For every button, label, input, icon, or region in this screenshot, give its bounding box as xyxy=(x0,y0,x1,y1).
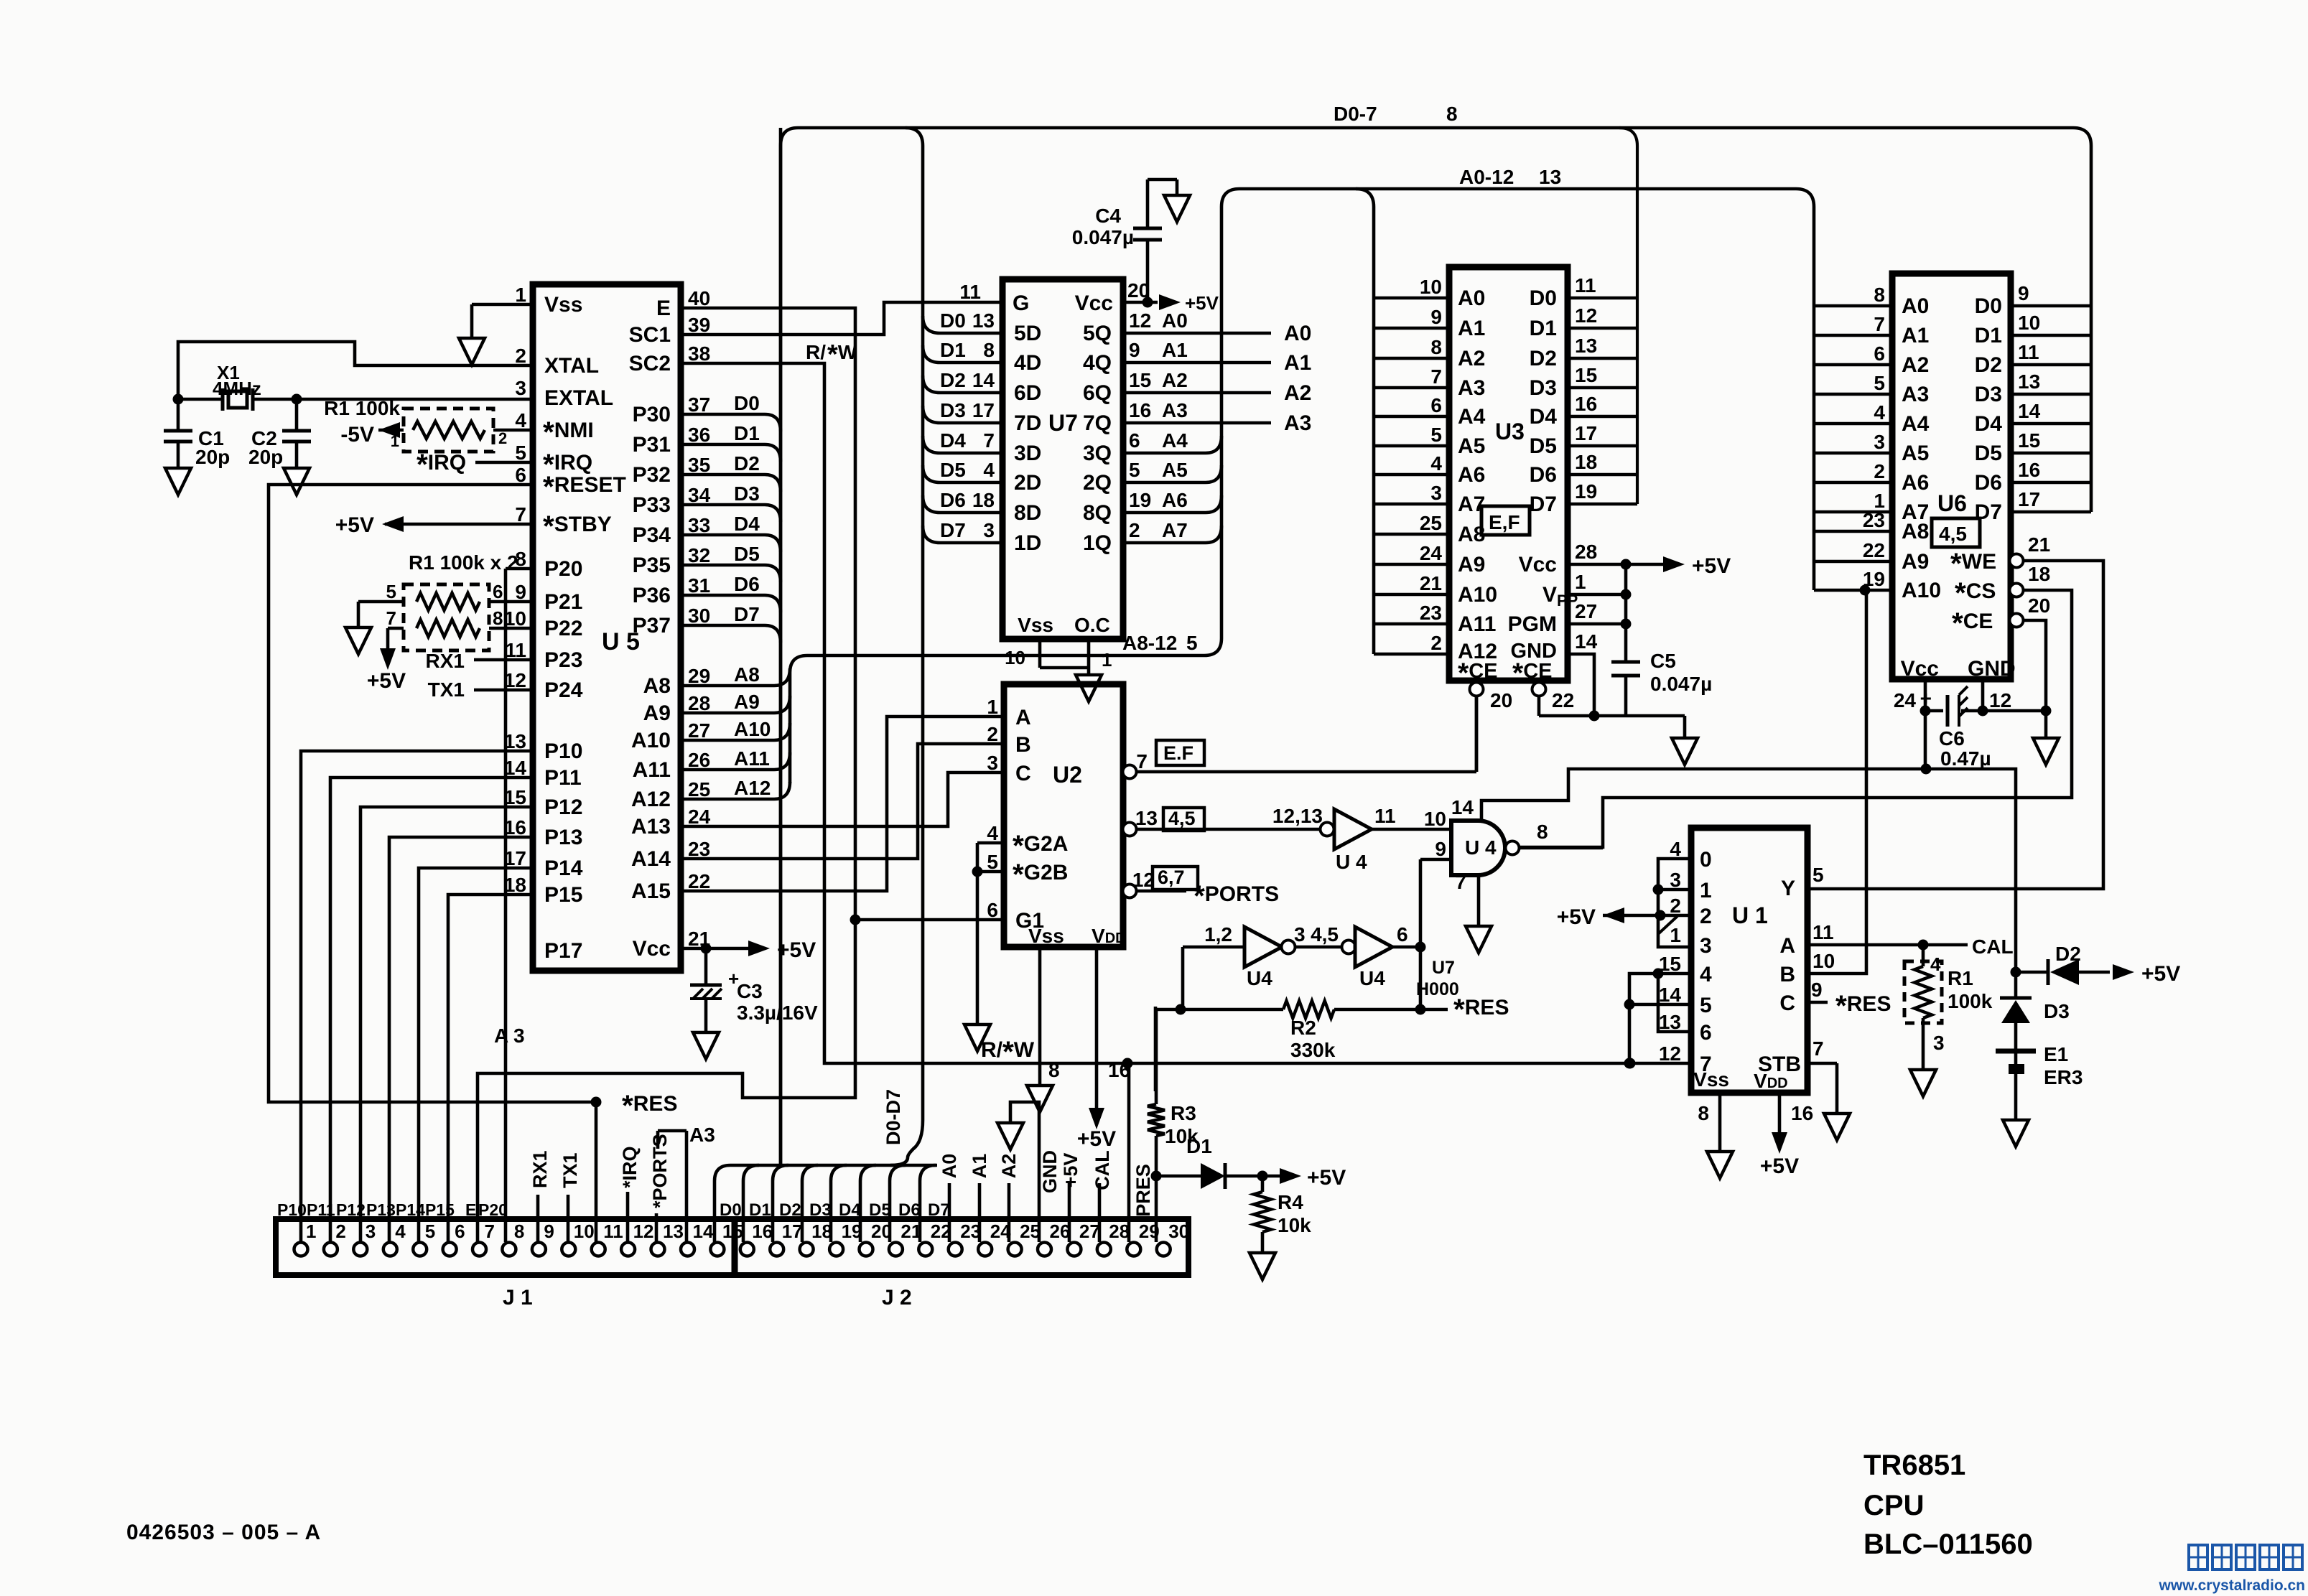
svg-text:E1: E1 xyxy=(2044,1043,2068,1065)
svg-text:5: 5 xyxy=(1700,994,1712,1017)
svg-text:24: 24 xyxy=(1420,542,1443,564)
svg-text:5: 5 xyxy=(515,442,526,464)
svg-text:C: C xyxy=(1015,762,1031,785)
svg-text:P10: P10 xyxy=(277,1200,307,1219)
svg-text:6: 6 xyxy=(1129,429,1140,452)
svg-text:P37: P37 xyxy=(633,614,671,638)
svg-text:16: 16 xyxy=(1108,1059,1130,1081)
svg-text:12: 12 xyxy=(1989,689,2011,711)
svg-text:R2: R2 xyxy=(1290,1017,1316,1039)
svg-text:13: 13 xyxy=(504,730,526,752)
svg-text:13: 13 xyxy=(1659,1011,1681,1033)
svg-text:7Q: 7Q xyxy=(1083,411,1112,435)
svg-text:3.3µ/16V: 3.3µ/16V xyxy=(737,1002,818,1024)
svg-text:13: 13 xyxy=(1135,807,1158,829)
svg-text:8: 8 xyxy=(514,1221,524,1242)
svg-text:12,13: 12,13 xyxy=(1272,805,1323,827)
svg-text:9: 9 xyxy=(1811,979,1823,1001)
svg-text:16: 16 xyxy=(1791,1102,1813,1124)
svg-text:U 1: U 1 xyxy=(1732,902,1768,928)
svg-text:A3: A3 xyxy=(689,1124,715,1146)
svg-text:0.047µ: 0.047µ xyxy=(1650,673,1712,695)
svg-text:2: 2 xyxy=(1129,519,1140,541)
svg-text:16: 16 xyxy=(504,816,526,839)
svg-text:18: 18 xyxy=(2028,563,2050,585)
svg-text:A1: A1 xyxy=(1902,324,1929,347)
svg-text:P11: P11 xyxy=(544,766,582,790)
svg-text:6,7: 6,7 xyxy=(1158,867,1185,888)
svg-text:27: 27 xyxy=(1079,1221,1100,1242)
svg-text:7: 7 xyxy=(1430,365,1442,388)
svg-text:BLC–011560: BLC–011560 xyxy=(1863,1529,2033,1560)
svg-text:7: 7 xyxy=(1813,1037,1824,1060)
svg-text:7: 7 xyxy=(1455,871,1466,893)
svg-text:1: 1 xyxy=(1700,879,1712,902)
svg-text:6: 6 xyxy=(515,464,526,486)
svg-text:21: 21 xyxy=(2028,533,2050,556)
svg-text:P10: P10 xyxy=(544,739,582,763)
svg-text:3: 3 xyxy=(1430,482,1442,504)
svg-text:A: A xyxy=(1015,706,1031,729)
svg-text:33: 33 xyxy=(688,514,710,536)
svg-text:38: 38 xyxy=(688,342,710,365)
svg-text:CPU: CPU xyxy=(1863,1490,1924,1521)
svg-text:A1: A1 xyxy=(1284,351,1311,375)
svg-text:7: 7 xyxy=(1874,313,1885,335)
svg-text:16: 16 xyxy=(1575,393,1597,415)
svg-text:Vss: Vss xyxy=(544,293,582,317)
svg-text:A: A xyxy=(1779,934,1795,958)
svg-text:18: 18 xyxy=(504,874,526,896)
svg-text:6: 6 xyxy=(1430,394,1442,416)
svg-text:P11: P11 xyxy=(307,1200,335,1219)
svg-text:13: 13 xyxy=(1575,335,1597,357)
svg-text:5: 5 xyxy=(1813,864,1824,886)
svg-text:3D: 3D xyxy=(1014,442,1041,465)
svg-text:1: 1 xyxy=(987,696,998,718)
svg-text:13: 13 xyxy=(2018,370,2040,393)
svg-text:A1: A1 xyxy=(1162,339,1188,361)
svg-text:B: B xyxy=(1779,963,1795,986)
svg-text:*PORTS: *PORTS xyxy=(649,1134,671,1208)
svg-text:9: 9 xyxy=(1430,306,1442,328)
svg-text:22: 22 xyxy=(688,870,710,892)
svg-text:9: 9 xyxy=(2018,282,2029,304)
svg-text:P32: P32 xyxy=(633,463,671,487)
svg-text:8D: 8D xyxy=(1014,501,1041,525)
svg-text:A2: A2 xyxy=(1162,369,1188,391)
svg-text:8: 8 xyxy=(1430,336,1442,358)
svg-text:7: 7 xyxy=(1136,750,1148,773)
svg-text:A9: A9 xyxy=(1458,553,1485,577)
svg-text:A3: A3 xyxy=(1162,399,1188,421)
svg-text:25: 25 xyxy=(688,778,710,801)
svg-text:29: 29 xyxy=(1139,1221,1160,1242)
svg-text:3: 3 xyxy=(1874,431,1885,453)
svg-text:P15: P15 xyxy=(544,883,582,907)
svg-text:22: 22 xyxy=(1552,689,1574,711)
svg-text:A8: A8 xyxy=(734,663,760,686)
svg-text:+5V: +5V xyxy=(367,669,406,693)
svg-text:A7: A7 xyxy=(1162,519,1188,541)
svg-text:A0: A0 xyxy=(939,1154,960,1179)
svg-text:+5V: +5V xyxy=(1760,1154,1799,1178)
svg-text:4: 4 xyxy=(1874,401,1885,424)
svg-text:14: 14 xyxy=(1659,984,1682,1006)
svg-text:25: 25 xyxy=(1420,512,1442,534)
svg-text:11: 11 xyxy=(959,281,981,303)
svg-text:A13: A13 xyxy=(631,815,671,839)
svg-text:A1: A1 xyxy=(969,1154,990,1179)
svg-text:1: 1 xyxy=(391,432,399,450)
svg-text:TX1: TX1 xyxy=(428,678,465,701)
svg-text:7: 7 xyxy=(485,1221,495,1242)
svg-text:Vcc: Vcc xyxy=(1075,291,1113,315)
svg-text:2: 2 xyxy=(1700,905,1712,928)
svg-text:Vcc: Vcc xyxy=(1519,553,1557,577)
svg-text:5: 5 xyxy=(425,1221,435,1242)
svg-text:A4: A4 xyxy=(1902,412,1930,436)
svg-text:11: 11 xyxy=(1575,274,1596,297)
svg-text:H000: H000 xyxy=(1416,979,1459,999)
svg-text:D7: D7 xyxy=(734,603,760,625)
svg-text:12: 12 xyxy=(633,1221,654,1242)
svg-text:+5V: +5V xyxy=(2141,962,2180,986)
svg-text:P14: P14 xyxy=(396,1200,425,1219)
svg-text:7: 7 xyxy=(983,429,995,452)
svg-text:17: 17 xyxy=(1575,422,1597,444)
svg-text:23: 23 xyxy=(1420,602,1442,624)
svg-text:5: 5 xyxy=(1186,632,1198,654)
svg-text:A0: A0 xyxy=(1902,294,1929,318)
svg-text:D2: D2 xyxy=(2055,943,2081,965)
svg-text:20p: 20p xyxy=(248,446,283,468)
svg-text:D3: D3 xyxy=(1530,376,1557,400)
svg-text:U7: U7 xyxy=(1432,958,1455,978)
svg-text:10: 10 xyxy=(1005,647,1025,668)
svg-text:2: 2 xyxy=(1430,632,1442,654)
svg-text:4,5: 4,5 xyxy=(1311,923,1339,946)
svg-text:6: 6 xyxy=(455,1221,465,1242)
svg-text:1Q: 1Q xyxy=(1083,531,1112,555)
svg-text:100k: 100k xyxy=(1948,990,1993,1012)
svg-text:Y: Y xyxy=(1781,877,1795,900)
svg-text:1: 1 xyxy=(515,284,526,306)
svg-text:36: 36 xyxy=(688,424,710,446)
svg-text:30: 30 xyxy=(1168,1221,1189,1242)
svg-text:6: 6 xyxy=(1397,923,1408,946)
svg-text:18: 18 xyxy=(811,1221,832,1242)
svg-text:A3: A3 xyxy=(1902,383,1929,406)
svg-text:+5V: +5V xyxy=(1060,1153,1081,1188)
svg-text:27: 27 xyxy=(688,719,710,742)
svg-text:D0: D0 xyxy=(734,392,760,414)
svg-text:J 1: J 1 xyxy=(503,1286,533,1310)
svg-text:C: C xyxy=(1779,991,1795,1015)
svg-text:Vss: Vss xyxy=(1018,614,1053,636)
svg-text:15: 15 xyxy=(1575,364,1597,386)
svg-text:24: 24 xyxy=(1894,689,1917,711)
svg-text:P23: P23 xyxy=(544,648,582,672)
svg-text:1,2: 1,2 xyxy=(1204,923,1232,946)
svg-text:-5V: -5V xyxy=(340,423,374,447)
svg-text:28: 28 xyxy=(688,692,710,714)
svg-text:4: 4 xyxy=(987,822,998,844)
svg-text:ER3: ER3 xyxy=(2044,1066,2083,1088)
svg-text:17: 17 xyxy=(504,847,526,869)
svg-text:14: 14 xyxy=(504,757,527,779)
svg-text:A11: A11 xyxy=(734,747,770,770)
svg-text:D7: D7 xyxy=(928,1200,950,1220)
svg-text:TR6851: TR6851 xyxy=(1863,1450,1965,1481)
svg-text:23: 23 xyxy=(688,838,710,860)
svg-text:4MHz: 4MHz xyxy=(213,378,261,399)
svg-text:E: E xyxy=(465,1200,476,1219)
svg-text:4,5: 4,5 xyxy=(1939,523,1967,545)
svg-text:Vss: Vss xyxy=(1693,1068,1729,1091)
svg-text:A0: A0 xyxy=(1162,309,1188,332)
svg-text:C3: C3 xyxy=(737,980,763,1002)
svg-text:4: 4 xyxy=(1430,452,1442,475)
svg-text:D5: D5 xyxy=(1530,434,1557,458)
svg-text:P20: P20 xyxy=(544,557,582,581)
svg-text:5: 5 xyxy=(386,581,396,602)
svg-text:17: 17 xyxy=(2018,488,2040,510)
svg-text:A0: A0 xyxy=(1458,286,1485,310)
svg-text:3: 3 xyxy=(1700,934,1712,958)
svg-text:12: 12 xyxy=(504,669,526,691)
svg-text:EXTAL: EXTAL xyxy=(544,386,613,410)
svg-text:18: 18 xyxy=(972,489,995,511)
svg-text:6: 6 xyxy=(1700,1021,1712,1045)
svg-text:D5: D5 xyxy=(869,1200,891,1220)
svg-text:0.047µ: 0.047µ xyxy=(1072,226,1134,248)
svg-text:E,F: E,F xyxy=(1489,511,1520,533)
svg-text:D6: D6 xyxy=(1975,471,2002,495)
svg-text:5Q: 5Q xyxy=(1083,322,1112,345)
svg-text:1: 1 xyxy=(1670,924,1681,946)
svg-text:17: 17 xyxy=(782,1221,803,1242)
svg-text:16: 16 xyxy=(1129,399,1151,421)
svg-text:P14: P14 xyxy=(544,857,583,880)
svg-text:23: 23 xyxy=(1863,509,1885,531)
svg-text:A3: A3 xyxy=(1458,376,1485,400)
svg-text:2: 2 xyxy=(1874,460,1885,482)
svg-text:34: 34 xyxy=(688,484,711,506)
svg-text:25: 25 xyxy=(1020,1221,1041,1242)
svg-text:40: 40 xyxy=(688,287,710,309)
svg-text:2D: 2D xyxy=(1014,471,1041,495)
svg-text:3: 3 xyxy=(1670,869,1681,891)
svg-text:D3: D3 xyxy=(940,399,966,421)
svg-text:P34: P34 xyxy=(633,523,671,547)
svg-text:P24: P24 xyxy=(544,678,583,702)
svg-text:+5V: +5V xyxy=(335,513,374,537)
svg-text:26: 26 xyxy=(1050,1221,1071,1242)
svg-text:12: 12 xyxy=(1575,304,1597,327)
svg-text:A8-12: A8-12 xyxy=(1122,632,1177,654)
svg-text:+5V: +5V xyxy=(1557,905,1596,929)
svg-text:D6: D6 xyxy=(940,489,966,511)
svg-text:+5V: +5V xyxy=(1307,1166,1346,1190)
svg-text:0: 0 xyxy=(1700,848,1712,872)
svg-text:D6: D6 xyxy=(898,1200,921,1220)
svg-text:D6: D6 xyxy=(734,573,760,595)
svg-text:5: 5 xyxy=(1129,459,1140,481)
svg-text:330k: 330k xyxy=(1290,1039,1336,1061)
svg-text:U 4: U 4 xyxy=(1465,836,1497,859)
svg-text:16: 16 xyxy=(2018,459,2040,481)
svg-text:Vcc: Vcc xyxy=(633,937,671,961)
svg-text:D7: D7 xyxy=(1530,493,1557,516)
svg-text:+5V: +5V xyxy=(1692,554,1731,578)
svg-text:11: 11 xyxy=(1374,805,1396,827)
svg-text:4: 4 xyxy=(1670,838,1681,860)
svg-text:3: 3 xyxy=(1294,923,1306,946)
svg-text:0426503 – 005 – A: 0426503 – 005 – A xyxy=(126,1521,321,1544)
svg-text:16: 16 xyxy=(752,1221,773,1242)
svg-text:D7: D7 xyxy=(940,519,966,541)
svg-text:O.C: O.C xyxy=(1074,614,1110,636)
svg-text:11: 11 xyxy=(2018,341,2039,363)
svg-text:D2: D2 xyxy=(1530,347,1557,370)
svg-text:E.F: E.F xyxy=(1163,742,1193,764)
svg-text:R1 100k x 2: R1 100k x 2 xyxy=(409,551,518,574)
svg-text:P13: P13 xyxy=(544,826,582,849)
svg-text:9: 9 xyxy=(1129,339,1140,361)
svg-text:C6: C6 xyxy=(1939,727,1965,750)
svg-text:U2: U2 xyxy=(1053,762,1082,788)
svg-text:8: 8 xyxy=(493,607,503,629)
svg-text:5: 5 xyxy=(1430,424,1442,446)
svg-text:6: 6 xyxy=(987,899,998,921)
svg-text:D1: D1 xyxy=(940,339,966,361)
svg-text:29: 29 xyxy=(688,665,710,687)
svg-text:P36: P36 xyxy=(633,584,671,607)
svg-text:10k: 10k xyxy=(1278,1214,1311,1236)
svg-text:1: 1 xyxy=(1575,571,1586,593)
svg-text:A11: A11 xyxy=(633,758,671,782)
svg-text:D0-D7: D0-D7 xyxy=(883,1089,904,1145)
svg-text:A6: A6 xyxy=(1458,463,1485,487)
svg-text:9: 9 xyxy=(1435,838,1446,860)
svg-text:www.crystalradio.cn: www.crystalradio.cn xyxy=(2159,1577,2305,1594)
svg-text:1D: 1D xyxy=(1014,531,1041,555)
svg-text:9: 9 xyxy=(515,581,526,603)
svg-text:C5: C5 xyxy=(1650,650,1676,672)
svg-text:PRES: PRES xyxy=(1132,1164,1154,1217)
svg-text:4: 4 xyxy=(1930,953,1941,975)
svg-text:14: 14 xyxy=(2018,400,2041,422)
svg-text:28: 28 xyxy=(1109,1221,1130,1242)
svg-text:P20: P20 xyxy=(478,1200,508,1219)
svg-text:2: 2 xyxy=(498,429,507,447)
svg-text:4Q: 4Q xyxy=(1083,351,1112,375)
svg-text:15: 15 xyxy=(2018,429,2040,452)
svg-text:D7: D7 xyxy=(1975,500,2002,524)
svg-text:12: 12 xyxy=(1659,1042,1681,1065)
svg-text:D5: D5 xyxy=(734,543,760,565)
svg-text:A10: A10 xyxy=(1458,583,1497,607)
svg-text:A8: A8 xyxy=(1902,520,1929,543)
svg-text:39: 39 xyxy=(688,314,710,336)
svg-text:A2: A2 xyxy=(1458,347,1485,370)
svg-text:3: 3 xyxy=(515,377,526,399)
svg-text:13: 13 xyxy=(972,309,995,332)
svg-text:11: 11 xyxy=(505,639,526,661)
svg-text:5D: 5D xyxy=(1014,322,1041,345)
svg-text:8: 8 xyxy=(1048,1059,1060,1081)
svg-text:D2: D2 xyxy=(940,369,966,391)
svg-text:A12: A12 xyxy=(631,788,671,811)
svg-text:R1 100k: R1 100k xyxy=(324,397,400,419)
svg-text:10: 10 xyxy=(2018,312,2040,334)
svg-text:+5V: +5V xyxy=(1185,292,1219,314)
svg-text:A10: A10 xyxy=(734,718,771,740)
svg-text:21: 21 xyxy=(1420,572,1442,594)
svg-text:+5V: +5V xyxy=(777,938,816,962)
svg-text:C4: C4 xyxy=(1095,205,1121,227)
svg-text:V: V xyxy=(1542,583,1557,607)
svg-text:D3: D3 xyxy=(1975,383,2002,406)
svg-text:A10: A10 xyxy=(631,729,671,752)
svg-text:P12: P12 xyxy=(336,1200,366,1219)
svg-text:6Q: 6Q xyxy=(1083,381,1112,405)
svg-text:14: 14 xyxy=(1575,630,1598,653)
svg-text:A8: A8 xyxy=(643,674,671,698)
svg-text:A12: A12 xyxy=(734,777,771,799)
svg-text:D4: D4 xyxy=(1975,412,2003,436)
svg-text:A9: A9 xyxy=(734,691,760,713)
svg-text:37: 37 xyxy=(688,393,710,416)
svg-text:D4: D4 xyxy=(839,1200,861,1220)
svg-text:2: 2 xyxy=(1670,895,1681,917)
svg-text:P13: P13 xyxy=(366,1200,396,1219)
svg-text:R3: R3 xyxy=(1171,1102,1196,1124)
svg-text:4: 4 xyxy=(395,1221,406,1242)
svg-text:4: 4 xyxy=(1700,963,1712,986)
svg-text:D3: D3 xyxy=(734,482,760,505)
svg-text:P15: P15 xyxy=(425,1200,455,1219)
svg-text:A0: A0 xyxy=(1284,322,1311,345)
svg-text:D2: D2 xyxy=(779,1200,801,1220)
svg-text:9: 9 xyxy=(544,1221,554,1242)
svg-text:12: 12 xyxy=(1129,309,1151,332)
svg-text:A14: A14 xyxy=(631,847,671,871)
svg-text:A2: A2 xyxy=(1902,353,1929,377)
svg-text:CAL: CAL xyxy=(1092,1150,1113,1190)
svg-text:1: 1 xyxy=(306,1221,316,1242)
svg-text:4D: 4D xyxy=(1014,351,1041,375)
svg-text:0.47µ: 0.47µ xyxy=(1940,747,1991,770)
svg-text:PGM: PGM xyxy=(1508,612,1557,636)
svg-text:A2: A2 xyxy=(998,1154,1020,1179)
svg-text:P22: P22 xyxy=(544,617,582,640)
svg-text:2: 2 xyxy=(987,723,998,745)
svg-text:13: 13 xyxy=(663,1221,684,1242)
svg-text:30: 30 xyxy=(688,605,710,627)
svg-text:A9: A9 xyxy=(1902,550,1929,574)
svg-text:A9: A9 xyxy=(643,701,671,725)
svg-text:28: 28 xyxy=(1575,541,1597,563)
svg-text:5: 5 xyxy=(1874,372,1885,394)
svg-text:A5: A5 xyxy=(1162,459,1188,481)
svg-text:SC2: SC2 xyxy=(629,352,671,375)
svg-text:TX1: TX1 xyxy=(559,1152,581,1188)
svg-text:2: 2 xyxy=(335,1221,345,1242)
svg-text:D3: D3 xyxy=(809,1200,832,1220)
svg-text:4: 4 xyxy=(515,409,526,431)
